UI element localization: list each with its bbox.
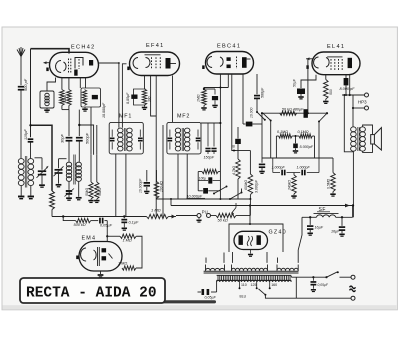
wire bbox=[168, 215, 176, 219]
label 0,1Ma bbox=[277, 130, 288, 134]
svg-text:0,05µF: 0,05µF bbox=[318, 283, 329, 287]
PU label bbox=[202, 210, 208, 215]
MF2 right capacitor bbox=[196, 130, 201, 150]
MF2 box bbox=[167, 122, 201, 153]
wire MF2 secondary up bbox=[227, 74, 229, 88]
output transformer primary bbox=[351, 127, 357, 151]
tube EF41 innards bbox=[133, 55, 176, 70]
label 1.000pF b bbox=[297, 166, 311, 170]
HP3 line top bbox=[342, 94, 364, 96]
capacitor screen 10000pF bbox=[92, 95, 98, 99]
pot wiper bbox=[231, 203, 236, 216]
svg-text:100µ: 100µ bbox=[199, 177, 206, 181]
EM4 resistor box top bbox=[107, 235, 120, 237]
wire bbox=[91, 107, 97, 155]
capacitor 0.05uF cathode bbox=[131, 95, 137, 99]
wire ECH42 anode to MF1 bbox=[99, 62, 120, 128]
label 0,05uF EM4 bbox=[100, 224, 113, 228]
label 500pF osc bbox=[84, 132, 89, 144]
label 0,05uF cathode bbox=[126, 92, 130, 104]
resistor 240k bbox=[291, 173, 296, 198]
scan bottom shadow bbox=[3, 305, 397, 309]
svg-text:30pF: 30pF bbox=[60, 134, 65, 143]
label 0,1uF bbox=[129, 221, 139, 225]
wire bbox=[295, 277, 297, 298]
capacitor 115pF bbox=[28, 139, 34, 142]
mains capacitor 0,05uF bbox=[198, 280, 217, 295]
label 500pF bbox=[23, 78, 28, 91]
label 50k b bbox=[98, 188, 102, 196]
tube ECH42 envelope bbox=[50, 52, 99, 77]
svg-text:50 kΩ: 50 kΩ bbox=[218, 218, 228, 223]
ground antenna coil bbox=[18, 197, 24, 199]
mains squiggle bbox=[350, 286, 356, 292]
antenna coil primary bbox=[18, 159, 24, 186]
svg-text:RECTA - AIDA 20: RECTA - AIDA 20 bbox=[26, 286, 157, 302]
MF2 core bbox=[182, 128, 183, 151]
ground PU bbox=[196, 218, 201, 222]
wire bbox=[144, 76, 146, 90]
wire bbox=[30, 142, 32, 158]
switch AVC bbox=[230, 189, 243, 200]
label 115pF bbox=[23, 129, 28, 140]
mains top line bbox=[291, 276, 326, 277]
tube ECH42 innards bbox=[44, 58, 94, 76]
capacitor 500pF det bbox=[254, 74, 260, 112]
svg-text:0,1µF: 0,1µF bbox=[129, 221, 139, 225]
wire bbox=[314, 136, 316, 158]
wire bbox=[249, 199, 251, 216]
resistor 50k osc divider b bbox=[94, 155, 99, 203]
mains terminal top bbox=[351, 275, 355, 279]
wire B+ down right bbox=[352, 152, 354, 218]
label 30pF bbox=[60, 134, 65, 143]
tap 125 bbox=[256, 280, 258, 289]
grid leak left wire bbox=[197, 172, 199, 191]
svg-text:50kΩ: 50kΩ bbox=[63, 95, 67, 103]
svg-text:5.000pF: 5.000pF bbox=[300, 145, 314, 149]
resistor 500k bbox=[76, 218, 91, 222]
resistor 100k bbox=[154, 170, 159, 198]
choke junction a bbox=[309, 216, 311, 218]
antenna bbox=[17, 47, 25, 57]
volume potentiometer 50k bbox=[211, 213, 251, 217]
tube GZ40 innards bbox=[239, 235, 261, 246]
resistor 0,1M b bbox=[292, 134, 314, 138]
capacitor 0,05uF EM4 bbox=[91, 218, 108, 224]
output transformer core bbox=[358, 127, 359, 151]
wire bbox=[162, 125, 164, 217]
wire bbox=[275, 136, 277, 158]
svg-text:50kΩ: 50kΩ bbox=[98, 188, 102, 196]
wire bbox=[273, 158, 319, 173]
tube EM4 pin mark bbox=[76, 256, 78, 260]
wire bbox=[61, 78, 63, 90]
tube EM4 envelope bbox=[79, 242, 122, 272]
MF2 primary coil bbox=[175, 128, 180, 151]
svg-text:150pF: 150pF bbox=[204, 156, 215, 160]
mains transformer core bbox=[204, 271, 299, 273]
svg-text:EL41: EL41 bbox=[327, 44, 345, 50]
wire MF1 bottom a bbox=[115, 154, 117, 217]
capacitor mains 2 bbox=[311, 277, 317, 291]
capacitor 10000pF grid bbox=[198, 188, 220, 194]
label 125 bbox=[251, 283, 257, 287]
wire speaker top bbox=[363, 125, 373, 135]
wire bbox=[30, 186, 32, 196]
svg-text:240kΩ: 240kΩ bbox=[288, 180, 292, 191]
svg-text:500pF: 500pF bbox=[261, 87, 265, 98]
capacitor 16uF b bbox=[339, 217, 345, 236]
wire GZ40 top bbox=[249, 206, 251, 226]
capacitor 100pF det bbox=[204, 89, 218, 107]
svg-text:600kΩ: 600kΩ bbox=[244, 180, 248, 190]
trimmer capacitor bbox=[54, 159, 67, 184]
label 110 bbox=[241, 283, 247, 287]
switch tone right bbox=[318, 113, 327, 122]
coupling capacitor 10000pF bbox=[243, 122, 262, 127]
ground osc coil bbox=[76, 198, 82, 200]
tap 160 bbox=[269, 280, 271, 289]
B+ mid line bbox=[171, 199, 354, 207]
wire bbox=[261, 112, 263, 124]
tube EM4 innards bbox=[81, 247, 113, 266]
svg-text:0,05µF: 0,05µF bbox=[126, 92, 130, 104]
svg-text:1.000pF: 1.000pF bbox=[272, 166, 286, 170]
switch grid network bbox=[213, 186, 228, 195]
wire EF41 pin long bbox=[155, 76, 157, 217]
svg-text:110: 110 bbox=[241, 283, 247, 287]
label 150pF bbox=[204, 156, 215, 160]
label 240k bbox=[288, 180, 292, 191]
wire B+ right vertical bbox=[352, 95, 354, 127]
MF1 primary coil bbox=[118, 128, 123, 151]
label 10.000 bbox=[249, 108, 253, 118]
wire osc branch bbox=[78, 124, 93, 155]
resistor 600k bbox=[236, 151, 253, 200]
tube EL41 pin mark bbox=[306, 65, 308, 69]
wire EF41 anode to MF2 bbox=[172, 76, 174, 123]
svg-text:100 kΩ: 100 kΩ bbox=[160, 181, 164, 192]
svg-text:0,1MΩ: 0,1MΩ bbox=[298, 130, 309, 134]
label 5.000pF tone bbox=[300, 145, 314, 149]
wire tone to EL41 grid bbox=[307, 59, 309, 114]
wire MF2 bottom a bbox=[177, 154, 179, 199]
ground diode load bbox=[201, 105, 206, 109]
HP3 terminal bottom bbox=[365, 106, 369, 110]
wire bbox=[318, 122, 320, 159]
mains transformer secondary left bbox=[206, 265, 225, 271]
svg-text:EF41: EF41 bbox=[146, 43, 165, 49]
wire antenna to coil bbox=[20, 90, 22, 159]
svg-text:0,05µF: 0,05µF bbox=[205, 295, 217, 299]
tube EBC41 pin mark bbox=[202, 65, 204, 69]
MF1 label bbox=[119, 114, 132, 120]
wire EM4 grid bbox=[106, 221, 108, 242]
tube EF41 pin mark bbox=[127, 67, 129, 71]
resistor 1M diode load bbox=[202, 90, 207, 106]
HP3 line bottom bbox=[352, 107, 365, 109]
MF2 secondary coil bbox=[185, 128, 190, 151]
wire diode load top bbox=[203, 87, 229, 91]
MF1 box bbox=[109, 122, 143, 153]
wire bbox=[219, 74, 221, 200]
ground coil box bbox=[44, 108, 49, 112]
svg-text:115pF: 115pF bbox=[23, 129, 28, 140]
mains bottom line bbox=[265, 295, 351, 298]
wire speaker left loop bbox=[343, 94, 353, 152]
resistor 50k osc divider a bbox=[88, 155, 93, 203]
label mains cap 2 bbox=[318, 283, 329, 287]
mains switch bbox=[325, 271, 351, 278]
svg-text:1.000pF: 1.000pF bbox=[297, 166, 311, 170]
label 300 bbox=[148, 96, 152, 102]
wire osc grid bbox=[68, 110, 70, 137]
svg-text:16µF: 16µF bbox=[331, 229, 340, 233]
wire speaker bottom bbox=[363, 144, 373, 152]
resistor 0,5M bbox=[330, 158, 335, 196]
label 1.000pF a bbox=[272, 166, 286, 170]
label under ECH42 bbox=[63, 95, 67, 103]
padder capacitor bbox=[65, 182, 75, 198]
grid leak resistor bbox=[198, 169, 220, 173]
wire EBC41 grid down bbox=[232, 74, 236, 152]
resistor 15k bbox=[67, 90, 72, 106]
wire bbox=[68, 141, 70, 162]
svg-text:50µF: 50µF bbox=[293, 78, 297, 87]
svg-text:0,1MΩ: 0,1MΩ bbox=[277, 130, 288, 134]
PU terminal a bbox=[176, 214, 201, 218]
wire MF1 bottom b bbox=[125, 154, 127, 217]
ground EF41 cathode bbox=[142, 105, 147, 109]
ground screen group bbox=[82, 107, 87, 111]
switch tone left bbox=[263, 113, 272, 121]
wire osc anode bbox=[78, 110, 80, 137]
svg-text:0,5MΩ: 0,5MΩ bbox=[327, 178, 331, 189]
tube GZ40 envelope bbox=[234, 231, 268, 249]
label 500pF det bbox=[261, 87, 265, 98]
svg-text:1 MΩ: 1 MΩ bbox=[151, 208, 161, 213]
svg-text:10.000: 10.000 bbox=[249, 108, 253, 118]
svg-text:500pF: 500pF bbox=[84, 132, 89, 144]
wire secondary left ends bbox=[206, 253, 224, 263]
wire bbox=[270, 121, 272, 159]
svg-text:4,7kΩ: 4,7kΩ bbox=[232, 166, 236, 175]
svg-text:50kΩ: 50kΩ bbox=[85, 188, 89, 196]
wire bbox=[20, 186, 22, 196]
resistor screen bbox=[82, 90, 86, 106]
wire B+ corner bbox=[352, 206, 354, 218]
wire bbox=[277, 258, 279, 263]
capacitor 30pF osc bbox=[66, 138, 73, 141]
GZ40 label bbox=[269, 230, 287, 236]
GZ40 anode loop bbox=[229, 224, 283, 252]
capacitor 16uF a bbox=[307, 217, 313, 235]
label 1M bus bbox=[151, 208, 161, 213]
resistor 1M EM4 top bbox=[120, 234, 136, 238]
tube EF41 envelope bbox=[130, 52, 180, 76]
switch det bbox=[256, 111, 266, 121]
oscillator coil secondary bbox=[76, 162, 81, 181]
svg-text:500: 500 bbox=[329, 89, 333, 95]
label 10.000pF bus bbox=[187, 194, 206, 198]
capacitor 1000pF a bbox=[273, 170, 294, 176]
wire bbox=[47, 78, 56, 92]
label BLU bbox=[240, 294, 247, 298]
svg-text:GZ40: GZ40 bbox=[269, 230, 287, 236]
oscillator padding coil box bbox=[40, 91, 54, 108]
label 4,7k bbox=[232, 166, 236, 175]
svg-text:10.000pF: 10.000pF bbox=[139, 178, 143, 193]
label mains cap bbox=[205, 295, 217, 299]
capacitor 500pF antenna bbox=[18, 87, 24, 90]
capacitor 150pF a bbox=[205, 123, 210, 154]
output transformer secondary bbox=[360, 127, 366, 151]
tube EL41 label bbox=[327, 44, 345, 50]
bus junction a bbox=[62, 215, 64, 217]
mains terminal bottom bbox=[351, 296, 355, 300]
resistor 0,1M a bbox=[276, 134, 292, 138]
svg-text:125: 125 bbox=[251, 283, 257, 287]
label 500k bbox=[74, 223, 86, 227]
SF label bbox=[317, 207, 330, 213]
wire bbox=[51, 210, 53, 217]
resistor 1M bus bbox=[147, 214, 169, 218]
label 0,5M bbox=[327, 178, 331, 189]
wire MF1 to EF41 grid bbox=[122, 64, 126, 128]
tube EBC41 label bbox=[217, 44, 241, 50]
resistor 1M EM4 bottom bbox=[122, 266, 136, 270]
wire antenna down bbox=[20, 57, 22, 86]
label 1M EM4 top bbox=[123, 239, 132, 243]
branch 500k bbox=[63, 217, 75, 221]
HP3 label bbox=[358, 100, 367, 105]
wire bbox=[62, 105, 69, 109]
ground trimmer bbox=[56, 185, 62, 187]
title text bbox=[26, 286, 157, 302]
tap 110 bbox=[239, 280, 241, 289]
wire bbox=[78, 141, 80, 162]
label 50uF bbox=[293, 78, 297, 87]
label 100k bbox=[160, 181, 164, 192]
svg-text:50 kΩ 480µF: 50 kΩ 480µF bbox=[282, 108, 304, 112]
label 1M EM4 bottom bbox=[118, 262, 127, 266]
EF41 cathode group box bbox=[134, 89, 146, 105]
antenna coil secondary bbox=[28, 159, 34, 186]
svg-text:10.000pF: 10.000pF bbox=[187, 194, 203, 198]
speaker bbox=[371, 128, 382, 150]
resistor 50k tone bbox=[280, 111, 297, 115]
label 50k a bbox=[85, 188, 89, 196]
ground GZ40 bbox=[248, 250, 253, 257]
svg-text:10.000pF: 10.000pF bbox=[102, 102, 106, 118]
EM4 label bbox=[82, 236, 97, 242]
screen group box bbox=[81, 88, 101, 107]
wire grid line bbox=[31, 49, 70, 138]
capacitor 500pF osc bbox=[76, 138, 83, 141]
ground antenna coil sec bbox=[28, 197, 34, 199]
resistor cathode EL41 bbox=[323, 75, 328, 104]
line y199 bbox=[157, 198, 252, 200]
choke junction b bbox=[341, 216, 343, 218]
tube EBC41 envelope bbox=[206, 52, 254, 75]
ground VC1 bbox=[39, 185, 45, 187]
label 10.000pF bbox=[102, 102, 106, 118]
wire bbox=[78, 182, 80, 197]
capacitor 1000pF b bbox=[294, 170, 319, 176]
label 0,1Mb bbox=[298, 130, 309, 134]
wire EM4 box right bbox=[136, 236, 142, 268]
capacitor 8000pF EL41 bbox=[344, 75, 349, 95]
svg-text:MF1: MF1 bbox=[119, 114, 132, 120]
tube EBC41 innards bbox=[207, 57, 250, 70]
choke SF bbox=[302, 214, 353, 218]
bus junction b bbox=[123, 215, 125, 217]
tube EL41 envelope bbox=[312, 52, 360, 75]
svg-text:1 MΩ: 1 MΩ bbox=[118, 262, 127, 266]
tube EL41 innards bbox=[306, 57, 352, 70]
wire bbox=[233, 252, 268, 263]
wire screen EF41 bbox=[151, 76, 157, 117]
svg-text:EBC41: EBC41 bbox=[217, 44, 241, 50]
mains transformer secondary right bbox=[277, 265, 298, 271]
label cap det bbox=[139, 178, 143, 193]
label 16uF a bbox=[315, 225, 324, 229]
ground EM4 bbox=[98, 271, 104, 277]
wire MF2 bottom b bbox=[186, 154, 188, 199]
tuning capacitor VC1 bbox=[35, 158, 49, 184]
resistor 1M AVC bbox=[50, 191, 55, 210]
label 1M diode bbox=[197, 94, 201, 102]
label B bbox=[233, 145, 236, 149]
AVC feed wire thick bbox=[29, 124, 52, 191]
capacitor 100pF grid bbox=[198, 177, 220, 183]
MF1 secondary coil bbox=[127, 128, 132, 151]
label 600k bbox=[244, 180, 248, 190]
wire bbox=[68, 78, 70, 90]
svg-text:500 kΩ: 500 kΩ bbox=[74, 223, 86, 227]
svg-text:ECH42: ECH42 bbox=[71, 45, 96, 51]
MF2 label bbox=[177, 114, 190, 120]
wire MF2 top jog bbox=[173, 122, 179, 127]
PU terminal b bbox=[207, 214, 211, 218]
MF2 left capacitor bbox=[168, 130, 173, 150]
label 160 bbox=[271, 283, 277, 287]
wire bbox=[80, 78, 85, 88]
svg-text:MF2: MF2 bbox=[177, 114, 190, 120]
oscillator coil primary bbox=[66, 162, 71, 181]
mains junction bbox=[312, 276, 314, 278]
label 100pF grid bbox=[199, 177, 206, 181]
mains transformer secondary middle bbox=[232, 265, 268, 271]
tube ECH42 label bbox=[71, 45, 96, 51]
HP3 terminal top bbox=[365, 93, 369, 97]
resistor 4,7k bbox=[235, 127, 241, 199]
wire EL41 anode bbox=[349, 75, 351, 96]
wire detector line bbox=[201, 122, 221, 124]
label 50k tone bbox=[282, 108, 304, 112]
svg-text:160: 160 bbox=[271, 283, 277, 287]
antenna coil core bbox=[25, 156, 27, 188]
wire EBC41 anode down bbox=[242, 74, 244, 124]
capacitor 5000pF tone bbox=[293, 135, 298, 153]
title box bbox=[20, 278, 165, 303]
capacitor 3000pF bbox=[259, 124, 265, 173]
capacitor 10000pF det bbox=[144, 170, 150, 193]
svg-text:16µF: 16µF bbox=[315, 225, 324, 229]
svg-text:0,05µF: 0,05µF bbox=[100, 224, 113, 228]
wire secondary right to choke bbox=[298, 217, 302, 263]
